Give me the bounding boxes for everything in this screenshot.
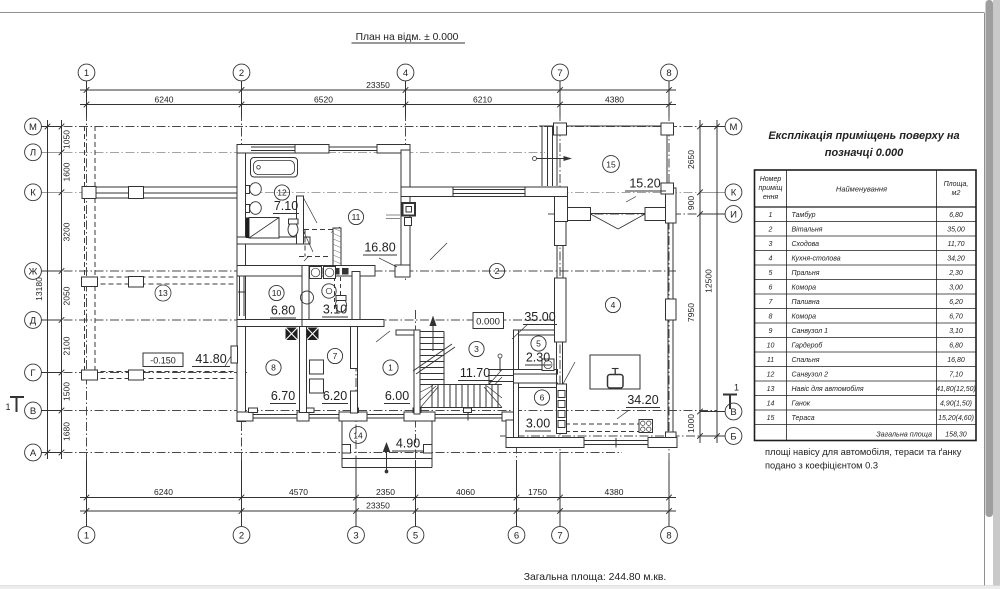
svg-text:35,00: 35,00 xyxy=(947,226,965,233)
svg-text:3: 3 xyxy=(353,530,358,541)
svg-text:4: 4 xyxy=(611,300,616,310)
room 6 circle xyxy=(534,390,549,405)
page right border line xyxy=(984,13,986,587)
svg-text:6: 6 xyxy=(769,284,773,291)
island sink xyxy=(608,375,624,389)
svg-text:Загальна площа: 244.80 м.кв.: Загальна площа: 244.80 м.кв. xyxy=(524,572,667,583)
svg-text:23350: 23350 xyxy=(366,80,390,90)
svg-text:Б: Б xyxy=(730,431,736,442)
axis row I line xyxy=(548,213,717,215)
svg-text:ення: ення xyxy=(763,194,779,201)
axis col 8 line xyxy=(668,81,670,527)
svg-text:11.70: 11.70 xyxy=(460,366,490,380)
room 12 circle xyxy=(274,185,289,200)
svg-text:Навіс для автомобіля: Навіс для автомобіля xyxy=(792,385,864,393)
svg-text:3: 3 xyxy=(769,241,773,248)
room 2 circle xyxy=(489,263,504,278)
stair up arrow xyxy=(432,320,434,351)
kitchen tall cabinet xyxy=(557,384,567,434)
svg-text:1500: 1500 xyxy=(62,382,72,401)
window stairwell south xyxy=(435,414,502,416)
door block room7 xyxy=(307,328,319,341)
svg-text:12: 12 xyxy=(767,371,775,378)
scrollbar thumb xyxy=(986,0,994,517)
svg-text:158,30: 158,30 xyxy=(945,432,967,439)
left segment dim line xyxy=(61,120,63,459)
carport roof dashed left edge xyxy=(84,126,86,379)
svg-text:7950: 7950 xyxy=(686,303,696,322)
room8-7 divider wall xyxy=(300,327,307,413)
axis row V line xyxy=(48,410,717,412)
svg-text:6: 6 xyxy=(540,393,545,403)
wall row D stair stub xyxy=(396,330,420,335)
bath south wall xyxy=(237,237,310,244)
corner jog wall xyxy=(555,197,568,222)
bottom dim extension lines xyxy=(86,460,88,526)
porch post right xyxy=(424,445,433,454)
room 4 circle xyxy=(605,297,620,312)
top dim extension lines xyxy=(86,81,88,117)
svg-text:7,10: 7,10 xyxy=(949,371,963,378)
svg-text:11: 11 xyxy=(767,357,774,364)
svg-text:4: 4 xyxy=(769,255,773,262)
bottom segment dim line xyxy=(80,497,676,499)
room5 walls xyxy=(514,330,558,335)
svg-text:6.80: 6.80 xyxy=(271,304,295,318)
svg-text:1: 1 xyxy=(84,68,89,79)
carport roof dashed ridge xyxy=(85,276,238,278)
svg-text:11,70: 11,70 xyxy=(948,241,965,248)
room7-1 divider upper xyxy=(351,327,358,369)
entry wall I stub west xyxy=(568,208,591,221)
porch platform steps xyxy=(342,458,432,460)
kitchen west wall stub xyxy=(506,420,515,448)
kitchen stove xyxy=(639,420,653,433)
svg-text:2: 2 xyxy=(239,68,244,79)
svg-text:1680: 1680 xyxy=(62,422,72,441)
south wall pilasters xyxy=(249,408,258,413)
stair break line xyxy=(413,344,452,371)
svg-text:13180: 13180 xyxy=(34,277,44,301)
svg-text:7: 7 xyxy=(557,530,562,541)
room4 door opening xyxy=(556,246,558,279)
top axis circles 1 2 4 7 8 xyxy=(78,64,95,81)
kitchen island xyxy=(590,355,640,389)
carport post Zh left xyxy=(82,277,98,287)
wall row D mid xyxy=(302,320,384,327)
stair right flight treads xyxy=(489,369,514,371)
room7 door opening xyxy=(357,369,359,392)
porch post left xyxy=(342,445,351,454)
svg-text:2: 2 xyxy=(495,266,500,276)
svg-text:10: 10 xyxy=(767,342,775,349)
svg-text:2350: 2350 xyxy=(376,487,395,497)
axis row M line xyxy=(48,126,717,128)
left axis circles М Л К Ж Д Г В А xyxy=(25,118,42,135)
svg-text:3.00: 3.00 xyxy=(526,417,550,431)
svg-text:Номер: Номер xyxy=(760,176,782,183)
south outer wall piece 2 xyxy=(297,412,309,421)
south outer wall piece 5 xyxy=(502,412,515,421)
room5 washer xyxy=(542,359,554,371)
carport post G left xyxy=(82,370,98,380)
svg-text:К: К xyxy=(731,188,737,199)
leader 34.20 xyxy=(617,410,629,419)
north wall row L east piece xyxy=(377,145,410,154)
room2 door leader xyxy=(430,243,447,260)
svg-text:15: 15 xyxy=(606,159,616,169)
svg-text:3.10: 3.10 xyxy=(323,303,347,317)
svg-text:Г: Г xyxy=(30,368,35,379)
terrace post E xyxy=(661,183,674,194)
svg-text:А: А xyxy=(30,448,37,459)
svg-text:2: 2 xyxy=(239,530,244,541)
sink 2 xyxy=(250,202,262,215)
svg-text:13: 13 xyxy=(767,386,775,393)
svg-text:5: 5 xyxy=(536,339,541,349)
east wall window 1 xyxy=(667,223,669,299)
section mark 1 left xyxy=(10,396,24,398)
svg-text:34,20: 34,20 xyxy=(947,255,965,262)
svg-text:Комора: Комора xyxy=(792,284,817,291)
svg-text:6.00: 6.00 xyxy=(385,389,409,403)
axis col 6 line xyxy=(516,398,518,527)
svg-text:3: 3 xyxy=(474,344,479,354)
svg-text:12500: 12500 xyxy=(704,269,714,293)
carport post Zh mid xyxy=(129,277,144,288)
svg-text:11: 11 xyxy=(352,212,361,222)
svg-text:3,10: 3,10 xyxy=(949,328,963,335)
carport wall row K xyxy=(83,187,237,198)
window in north wall 2 xyxy=(329,146,377,148)
svg-text:Вітальня: Вітальня xyxy=(792,225,823,233)
explication table xyxy=(755,170,977,441)
svg-text:6.20: 6.20 xyxy=(323,389,347,403)
axis col 5 line xyxy=(415,310,417,527)
room4 west wall lower xyxy=(555,278,567,342)
svg-text:4060: 4060 xyxy=(456,487,475,497)
window in north wall 1 xyxy=(251,146,295,148)
terrace entry arrow xyxy=(533,157,537,161)
svg-text:1: 1 xyxy=(769,212,773,219)
svg-text:Санвузол 1: Санвузол 1 xyxy=(792,328,829,335)
axis row G line xyxy=(48,372,247,374)
svg-text:2100: 2100 xyxy=(62,336,72,355)
svg-text:Пральня: Пральня xyxy=(792,270,820,277)
room10-9 divider wall xyxy=(302,266,309,320)
svg-text:13: 13 xyxy=(158,288,168,298)
svg-text:1600: 1600 xyxy=(62,162,72,181)
svg-text:М: М xyxy=(730,122,738,133)
svg-text:6240: 6240 xyxy=(155,95,174,105)
scrollbar track xyxy=(993,0,1000,586)
svg-text:41.80: 41.80 xyxy=(195,352,226,366)
terrace top edge xyxy=(539,125,674,127)
svg-text:1050: 1050 xyxy=(62,130,72,149)
leader 16.80 xyxy=(379,258,397,267)
svg-text:1: 1 xyxy=(388,363,393,373)
level box 0.000 xyxy=(473,313,504,329)
svg-text:4380: 4380 xyxy=(605,95,624,105)
axis col 2 line xyxy=(241,81,243,527)
svg-text:Загальна площа: Загальна площа xyxy=(876,430,932,439)
room6 walls xyxy=(514,383,558,388)
svg-text:7.10: 7.10 xyxy=(274,199,298,213)
room9 east wall xyxy=(352,272,360,321)
toilet room12 xyxy=(288,223,298,237)
svg-text:6: 6 xyxy=(514,530,519,541)
svg-text:6,20: 6,20 xyxy=(949,299,963,306)
svg-text:4380: 4380 xyxy=(605,487,624,497)
section mark 1 right xyxy=(723,394,737,396)
svg-text:Найменування: Найменування xyxy=(836,185,887,194)
axis row L line xyxy=(48,151,545,153)
kitchen south window xyxy=(584,440,648,442)
svg-text:15,20(4,60): 15,20(4,60) xyxy=(938,415,974,422)
svg-text:Д: Д xyxy=(30,315,37,326)
svg-text:2: 2 xyxy=(768,226,773,233)
stair west wall xyxy=(414,330,420,414)
room 14 circle xyxy=(350,427,367,444)
svg-text:16.80: 16.80 xyxy=(364,241,395,255)
window room7 south xyxy=(309,414,339,416)
terrace double door xyxy=(591,214,619,229)
room 8 circle xyxy=(266,360,281,375)
east outer wall lower xyxy=(666,432,677,448)
svg-text:1: 1 xyxy=(5,402,10,412)
svg-text:Ж: Ж xyxy=(29,266,38,277)
room 7 circle xyxy=(327,348,342,363)
vent ducts in wall xyxy=(305,268,312,275)
room9 door swing xyxy=(303,230,313,252)
shower tray xyxy=(249,218,279,239)
entry wall I stub east xyxy=(645,208,676,221)
bedroom east wall foot xyxy=(395,265,410,277)
svg-text:2050: 2050 xyxy=(62,286,72,305)
right overall dim line 12500 xyxy=(716,120,718,443)
svg-text:16,80: 16,80 xyxy=(947,357,965,364)
carport roof dashed bottom edge xyxy=(85,371,238,373)
svg-text:8: 8 xyxy=(271,363,276,373)
svg-text:3,00: 3,00 xyxy=(949,284,963,291)
west outer wall xyxy=(237,145,246,422)
svg-text:м2: м2 xyxy=(952,190,961,197)
svg-text:К: К xyxy=(30,188,36,199)
svg-text:23350: 23350 xyxy=(366,501,390,511)
svg-text:приміщ: приміщ xyxy=(759,184,783,192)
carport post K mid xyxy=(129,187,144,199)
svg-text:В: В xyxy=(30,406,36,417)
fireplace xyxy=(403,203,416,216)
entrance door opening xyxy=(367,414,404,416)
svg-text:1: 1 xyxy=(734,383,739,393)
north wall row K xyxy=(401,187,568,197)
bedroom east wall xyxy=(401,150,410,277)
svg-text:41,80(12,50): 41,80(12,50) xyxy=(936,386,976,393)
bath door swing xyxy=(304,198,318,223)
axis col 7 line xyxy=(559,81,561,527)
room 1 circle xyxy=(383,360,398,375)
south outer wall piece 4 xyxy=(404,412,435,421)
chimney dashed continuation xyxy=(334,277,336,310)
room7 furniture xyxy=(310,360,324,374)
bottom scrollbar strip xyxy=(0,586,1000,589)
kitchen counter dashed xyxy=(565,423,652,425)
stair bottom flight treads xyxy=(431,385,433,408)
carport post G mid xyxy=(129,370,144,380)
leader 35.00 xyxy=(512,324,528,339)
svg-text:8: 8 xyxy=(769,313,773,320)
svg-text:10: 10 xyxy=(272,288,282,298)
room9 washer circle xyxy=(322,284,336,298)
svg-text:Паливна: Паливна xyxy=(792,299,820,306)
svg-text:0.000: 0.000 xyxy=(476,317,500,328)
room7-1 divider lower xyxy=(351,391,358,413)
svg-text:Тераса: Тераса xyxy=(792,415,815,422)
axis col 3 line xyxy=(355,316,357,527)
room9 toilet xyxy=(336,298,347,312)
room 5 circle xyxy=(531,336,546,351)
terrace east edge xyxy=(666,135,668,183)
kitchen south wall west piece xyxy=(506,438,584,448)
room1 door swing xyxy=(376,331,390,342)
svg-text:площі навісу для автомобіля, т: площі навісу для автомобіля, тераси та ґ… xyxy=(765,447,962,457)
stair door post xyxy=(499,358,501,371)
stair winder lines right xyxy=(484,387,502,408)
north wall row L west piece xyxy=(237,145,329,154)
tiny note room11 xyxy=(386,214,400,216)
svg-text:позначці 0.000: позначці 0.000 xyxy=(825,147,904,159)
carport post K left xyxy=(82,187,96,199)
axis col 1 line xyxy=(86,81,88,527)
south outer wall piece 3 xyxy=(339,412,367,421)
svg-text:Санвузол 2: Санвузол 2 xyxy=(792,371,829,378)
leader 41.80 xyxy=(225,348,236,366)
right segment dim line xyxy=(699,120,701,443)
bathtub xyxy=(251,158,298,178)
room 13 circle xyxy=(155,285,171,301)
axis row Zh line xyxy=(48,270,676,272)
svg-text:8: 8 xyxy=(666,68,671,79)
svg-text:3200: 3200 xyxy=(62,222,72,241)
svg-text:1: 1 xyxy=(84,530,89,541)
porch side walls xyxy=(341,421,343,468)
svg-text:Експлікація приміщень поверх: Експлікація приміщень поверху на xyxy=(768,130,959,142)
svg-text:6,70: 6,70 xyxy=(949,313,963,320)
top overall dim line 23350 xyxy=(80,89,676,91)
svg-text:8: 8 xyxy=(666,530,671,541)
east wall pier xyxy=(666,299,677,320)
svg-text:Ганок: Ганок xyxy=(792,400,811,407)
svg-text:4: 4 xyxy=(403,68,408,79)
terrace steps xyxy=(541,126,543,186)
svg-text:2.30: 2.30 xyxy=(526,351,550,365)
svg-text:План на відм. ± 0.000: План на відм. ± 0.000 xyxy=(356,32,459,43)
stair winder lines left xyxy=(421,387,439,408)
svg-text:Спальня: Спальня xyxy=(792,357,820,364)
chimney strip xyxy=(333,228,341,266)
wardrobe dashed outline xyxy=(304,229,339,231)
door block room8 xyxy=(286,328,298,341)
stair left flight treads xyxy=(421,331,445,333)
axis row K line xyxy=(48,191,717,193)
svg-text:Площа,: Площа, xyxy=(944,181,969,188)
svg-text:подано з коефіцієнтом 0.3: подано з коефіцієнтом 0.3 xyxy=(765,461,878,471)
svg-text:М: М xyxy=(29,122,37,133)
svg-text:-0.150: -0.150 xyxy=(150,356,176,366)
west wall pilaster xyxy=(231,346,238,363)
svg-text:6520: 6520 xyxy=(314,95,333,105)
west wall window room10 xyxy=(239,267,244,316)
wall row D west xyxy=(237,320,302,327)
kitchen door opening xyxy=(556,342,558,384)
level box -0.150 xyxy=(143,353,183,367)
svg-text:Кухня-столова: Кухня-столова xyxy=(792,255,841,262)
svg-text:900: 900 xyxy=(686,196,696,210)
axis col 4 line xyxy=(405,81,407,280)
svg-text:14: 14 xyxy=(767,400,775,407)
svg-text:6210: 6210 xyxy=(473,95,492,105)
svg-text:7: 7 xyxy=(333,351,338,361)
svg-text:15.20: 15.20 xyxy=(629,177,660,191)
svg-text:В: В xyxy=(730,407,736,418)
axis row B line xyxy=(500,435,717,437)
svg-text:7: 7 xyxy=(557,68,562,79)
window room8 south xyxy=(253,414,297,416)
room 15 circle xyxy=(603,156,620,173)
kitchen door leaf xyxy=(563,362,575,384)
svg-text:Л: Л xyxy=(30,148,36,159)
svg-text:6,80: 6,80 xyxy=(949,342,963,349)
axis row A line xyxy=(48,452,622,454)
axis row D line xyxy=(48,319,556,321)
svg-text:5: 5 xyxy=(769,270,773,277)
room4 west wall upper xyxy=(555,222,567,246)
svg-text:12: 12 xyxy=(277,188,287,198)
terrace post NW xyxy=(554,123,567,135)
wall row Zh vent section xyxy=(302,266,375,277)
page top edge line xyxy=(0,12,984,14)
svg-text:6.70: 6.70 xyxy=(271,389,295,403)
room 10 circle xyxy=(269,285,284,300)
left overall dim line 13180 xyxy=(47,120,49,459)
svg-text:15: 15 xyxy=(767,415,775,422)
svg-text:1750: 1750 xyxy=(528,487,547,497)
svg-text:Тамбур: Тамбур xyxy=(792,211,816,219)
bottom overall dim line 23350 xyxy=(80,510,676,512)
bottom axis circles 1 2 3 5 6 7 8 xyxy=(78,527,95,544)
north wall row L mid piece xyxy=(295,145,329,154)
sink 1 xyxy=(250,183,262,196)
window in row K wall xyxy=(453,189,525,191)
porch up arrow xyxy=(386,446,388,470)
svg-text:6240: 6240 xyxy=(154,487,173,497)
svg-text:14: 14 xyxy=(353,430,363,440)
svg-text:Сходова: Сходова xyxy=(792,240,820,248)
svg-text:4,90(1,50): 4,90(1,50) xyxy=(940,400,972,407)
svg-text:5: 5 xyxy=(413,530,418,541)
svg-text:4.90: 4.90 xyxy=(396,437,420,451)
svg-text:Комора: Комора xyxy=(792,313,817,320)
svg-text:2,30: 2,30 xyxy=(948,270,963,277)
leader 15.20 xyxy=(626,197,636,203)
svg-text:Гардероб: Гардероб xyxy=(792,341,824,349)
room 11 circle xyxy=(348,209,363,224)
room9 appliance 2 xyxy=(324,267,336,279)
terrace post NE xyxy=(661,123,674,135)
svg-text:34.20: 34.20 xyxy=(627,393,658,407)
room9 appliance 1 xyxy=(310,267,322,279)
